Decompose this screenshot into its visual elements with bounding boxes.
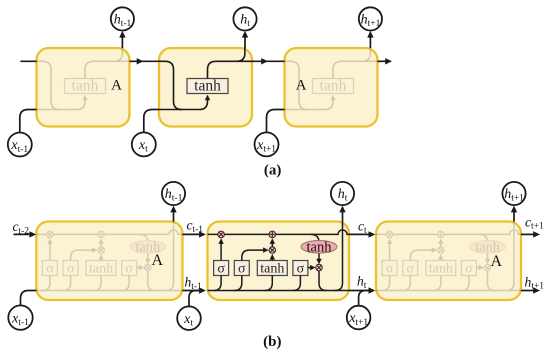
wire up to h(t+1) circle (513, 209, 515, 221)
svg-text:ct+1: ct+1 (525, 214, 544, 231)
arrow c(t) into cell (369, 231, 376, 237)
node h(t-1) lstm (162, 182, 185, 205)
arrow h(t+1) out (533, 287, 540, 293)
node h(t+1) lstm (502, 182, 525, 205)
arrow c(t+1) out (533, 231, 540, 237)
svg-text:(a): (a) (264, 163, 282, 179)
arrow c(t-2) into cell (29, 231, 36, 237)
cell LSTM(t) internals (208, 222, 350, 291)
wire up to h(t) (244, 34, 246, 48)
wire x(t) in (144, 110, 159, 133)
cell A(t-1) body (37, 48, 130, 127)
arrow into cell2 (137, 58, 144, 64)
wire cell2 to cell3 (252, 60, 285, 62)
arrow to h(t) (242, 31, 248, 38)
svg-text:ht+1: ht+1 (525, 274, 545, 291)
wire up to h(t+1) (369, 34, 371, 48)
node x(t+1) (255, 132, 279, 156)
arrow to h(t) circle (339, 206, 345, 213)
node x(t-1) lstm (8, 305, 32, 329)
wire h(t-1) between cells (183, 290, 200, 292)
wire x(t-1) in (21, 291, 37, 306)
cell LSTM(t+1) faded internals (376, 222, 521, 291)
wire c(t+1) out (521, 233, 534, 235)
svg-text:(b): (b) (263, 334, 281, 350)
node h(t) (233, 7, 256, 30)
node x(t-1) (8, 133, 32, 157)
arrow to h(t+1) (367, 31, 373, 38)
cell LSTM(t) body (208, 222, 350, 301)
svg-text:A: A (152, 252, 164, 269)
wire x(t+1) in (359, 291, 368, 306)
cell A(t) internals (159, 48, 252, 110)
cell LSTM(t+1) body (376, 222, 521, 301)
node h(t+1) (359, 7, 382, 30)
arrow rnn out (385, 58, 392, 64)
cell A(t+1) faded internals (285, 48, 378, 110)
arrow into cell3 (261, 58, 268, 64)
arrow to h(t-1) (119, 31, 125, 38)
cell A(t) body (159, 48, 252, 127)
wire h line (208, 290, 350, 292)
wire c(t-2) in (14, 233, 30, 235)
wire c(t) between cells (349, 233, 369, 235)
wire x(t) in (189, 291, 199, 307)
arrow c(t-1) into cell (199, 231, 206, 237)
wire c(t-1) between cells (183, 233, 200, 235)
arrow to h(t+1) circle (511, 206, 517, 213)
wire c line with hop (208, 230, 350, 235)
node x(t) lstm (177, 306, 201, 330)
wire up to h(t-1) (121, 34, 123, 48)
node x(t+1) lstm (347, 306, 371, 330)
svg-text:A: A (491, 253, 503, 270)
wire cell3 out (378, 60, 386, 62)
wire h start (20, 60, 36, 62)
arrow h(t-1) into cell (199, 287, 206, 293)
wire h(t) between cells (349, 290, 369, 292)
svg-text:ct-2: ct-2 (13, 219, 30, 236)
cell A(t-1) faded internals (37, 48, 130, 110)
svg-text:ht-1: ht-1 (185, 275, 203, 292)
wire branch up to h(t) circle (335, 222, 343, 291)
node x(t) (132, 132, 156, 156)
svg-text:ct: ct (358, 218, 367, 235)
wire up to h(t-1) circle (173, 209, 175, 221)
cell LSTM(t-1) body (36, 222, 182, 301)
wire x(t+1) in (267, 110, 285, 133)
node h(t) lstm (331, 182, 354, 205)
svg-text:ht: ht (357, 274, 367, 291)
wire h(t+1) out (521, 290, 534, 292)
wire cell1 to cell2 (130, 60, 160, 62)
cell LSTM(t-1) faded internals (36, 222, 182, 291)
svg-text:A: A (296, 78, 307, 94)
cell A(t+1) body (285, 48, 378, 127)
arrow h(t) into cell (369, 287, 376, 293)
svg-text:A: A (111, 77, 122, 93)
node h(t-1) (111, 7, 134, 30)
svg-text:ct-1: ct-1 (187, 218, 204, 235)
wire up to h(t) circle (342, 209, 344, 221)
arrow to h(t-1) circle (170, 206, 176, 213)
wire x(t-1) in (20, 110, 37, 133)
